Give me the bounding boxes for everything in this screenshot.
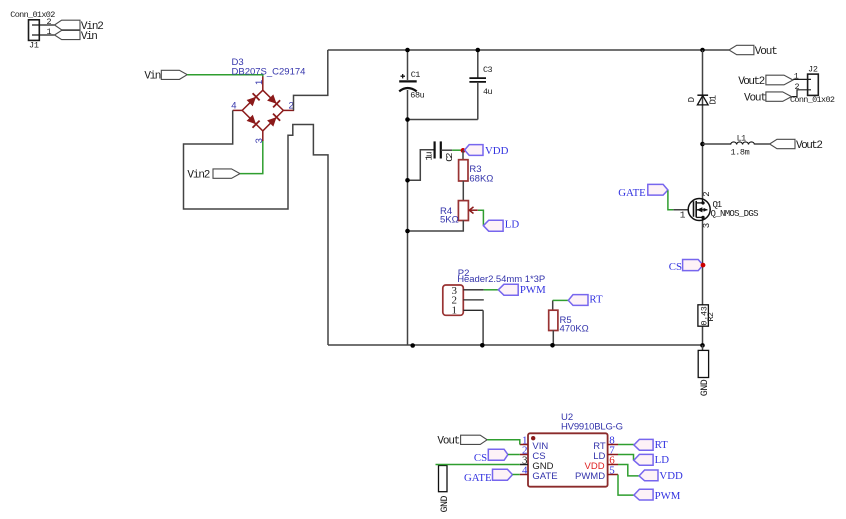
wire U2 pin 7 to LD (green) — [618, 455, 634, 461]
svg-text:2: 2 — [47, 17, 52, 27]
resistor R5 470KOhm — [549, 300, 589, 345]
diode D3-b (top to right) — [267, 94, 277, 103]
power symbol GND (left, at U2 pin 3) — [439, 466, 451, 513]
svg-text:RT: RT — [655, 439, 669, 451]
svg-text:L1: L1 — [737, 134, 747, 144]
hierarchical label Vout (U2 VIN) — [437, 435, 487, 447]
junction dot R4 branch node — [405, 229, 410, 234]
U2 pin 7 stub — [608, 454, 618, 456]
IC U2 HV9910BLG-G — [520, 412, 623, 487]
junction dot C2 branch node — [405, 178, 410, 183]
wire GND to U2 pin 3 (green) — [436, 464, 520, 466]
svg-text:VDD: VDD — [485, 145, 509, 157]
svg-text:J2: J2 — [808, 65, 818, 75]
wire P2 pin 1 down to bottom bus — [482, 310, 484, 345]
svg-text:PWMD: PWMD — [575, 471, 605, 482]
hierarchical label Vin (at J1 pin 1) — [55, 30, 98, 43]
connector J2 (Conn_01x02) — [790, 65, 835, 105]
svg-text:470KΩ: 470KΩ — [560, 323, 589, 334]
svg-text:2: 2 — [795, 82, 800, 92]
svg-text:4u: 4u — [483, 87, 493, 97]
wire gate lead (black) — [673, 209, 693, 211]
svg-text:5: 5 — [609, 465, 615, 477]
U2 pin 2 stub — [520, 454, 528, 456]
capacitor C2 1u — [424, 141, 455, 161]
svg-text:3: 3 — [254, 138, 265, 143]
wire U2 pin 6 to VDD (green) — [618, 465, 639, 476]
power symbol GND (right) — [698, 345, 711, 396]
U2 pin 3 stub — [520, 464, 528, 466]
global label RT (at R5) — [568, 293, 603, 305]
junction dot at L1 branch — [700, 142, 705, 147]
bridge pin 3 stub — [262, 131, 264, 141]
svg-text:4: 4 — [522, 465, 528, 477]
junction dot C1 bottom node — [405, 117, 410, 122]
svg-text:1: 1 — [452, 305, 458, 317]
svg-text:VDD: VDD — [659, 470, 683, 482]
inductor L1 1.8m — [703, 134, 770, 158]
bridge rectifier D3 DB207S_C29174 — [231, 57, 305, 144]
wire from bridge pin 2 to top bus — [294, 50, 328, 110]
svg-text:Vout: Vout — [437, 435, 460, 447]
resistor R3 68KOhm — [459, 150, 494, 200]
bridge pin 4 stub — [233, 109, 243, 111]
wire C2 to VDD node (green) — [452, 149, 462, 151]
svg-text:Vout: Vout — [744, 92, 767, 104]
junction red dot at VDD node — [461, 148, 466, 153]
wire P2 pin 3 to PWM (green) — [484, 289, 499, 291]
header P2 Header2.54mm 1*3P — [443, 268, 545, 317]
svg-text:PWM: PWM — [655, 490, 681, 502]
wire right vertical rail — [702, 50, 704, 345]
connector J1 (Conn_01x02) — [10, 10, 55, 50]
U2 pin 5 stub — [608, 474, 618, 476]
svg-text:Vout: Vout — [755, 46, 778, 58]
svg-text:D1: D1 — [708, 95, 718, 105]
svg-text:LD: LD — [655, 454, 670, 466]
U2 pin 1 stub — [520, 444, 528, 446]
svg-text:C1: C1 — [411, 70, 421, 80]
U2 pin 4 stub — [520, 474, 528, 476]
U2 pin 6 stub — [608, 464, 618, 466]
junction dot C1 top bus — [405, 48, 410, 53]
svg-text:2: 2 — [702, 191, 712, 196]
svg-text:68u: 68u — [410, 90, 424, 100]
svg-text:CS: CS — [474, 452, 487, 464]
U2 pin 8 stub — [608, 444, 618, 446]
svg-text:1: 1 — [680, 209, 686, 220]
global label GATE — [618, 184, 668, 199]
global label CS (right rail) — [669, 260, 703, 274]
bridge pin 1 stub — [262, 77, 264, 91]
svg-text:HV9910BLG-G: HV9910BLG-G — [561, 421, 623, 432]
global label CS (U2 pin 2) — [474, 449, 508, 464]
wire Vout to U2 pin 1 (green) — [487, 440, 520, 445]
svg-text:J1: J1 — [29, 40, 39, 50]
hierarchical label Vout (top right) — [729, 45, 778, 58]
svg-text:GND: GND — [440, 496, 451, 513]
global label PWM (at P2) — [498, 284, 546, 296]
svg-text:1: 1 — [47, 27, 52, 37]
svg-text:Vin: Vin — [144, 70, 161, 82]
svg-text:Vout2: Vout2 — [796, 140, 823, 152]
hierarchical label Vin (left of bridge) — [144, 70, 187, 82]
wire loop from bridge pin 4 to bottom bus — [184, 110, 329, 345]
svg-text:GATE: GATE — [618, 187, 646, 199]
svg-text:68KΩ: 68KΩ — [469, 173, 493, 184]
svg-text:3: 3 — [702, 223, 712, 228]
svg-text:R2: R2 — [706, 312, 716, 322]
hierarchical label Vin2 (at J1 pin 2) — [55, 20, 104, 33]
svg-text:Vout2: Vout2 — [738, 76, 765, 88]
svg-text:DB207S_C29174: DB207S_C29174 — [232, 67, 306, 78]
svg-text:1: 1 — [794, 71, 799, 81]
svg-text:Q_NMOS_DGS: Q_NMOS_DGS — [711, 209, 759, 219]
hierarchical label Vout2 (after L1) — [770, 139, 823, 152]
top bus wire — [328, 49, 729, 51]
global label VDD — [465, 145, 509, 157]
diode D1 — [687, 95, 719, 105]
wire U2 pin 5 to PWM (green) — [618, 475, 634, 496]
global label GATE (U2 pin 4) — [464, 469, 513, 484]
bottom bus wire — [328, 344, 703, 346]
svg-text:C3: C3 — [483, 65, 493, 75]
svg-text:Vin: Vin — [81, 31, 98, 43]
wire C3 bottom to C1 node — [408, 119, 478, 121]
bridge pin 2 stub — [283, 109, 294, 111]
svg-text:GATE: GATE — [532, 471, 557, 482]
wire GATE to U2 pin 4 (green) — [513, 474, 520, 476]
wire R5 top to RT (green) — [553, 299, 569, 301]
junction dot top-right corner — [700, 48, 705, 53]
svg-text:GND: GND — [700, 379, 711, 396]
transistor Q1 Q_NMOS_DGS — [680, 191, 759, 228]
svg-text:LD: LD — [505, 219, 520, 231]
capacitor C3 4u — [469, 50, 492, 120]
global label LD (U2 pin 7) — [634, 454, 669, 466]
svg-text:CS: CS — [669, 261, 682, 273]
capacitor C1 68u — [399, 50, 424, 120]
wire Vin to bridge pin 1 (green) — [187, 75, 263, 77]
svg-text:GATE: GATE — [464, 472, 492, 484]
hierarchical label Vin2 (below bridge) — [187, 169, 240, 182]
svg-text:1u: 1u — [424, 151, 435, 160]
wire CS to U2 pin 2 (green) — [508, 454, 520, 456]
global label RT (U2 pin 8) — [634, 439, 668, 451]
wire GATE to Q1 gate (green) — [668, 191, 673, 210]
resistor R2 0.43 — [698, 305, 716, 326]
svg-text:Vin2: Vin2 — [187, 169, 210, 181]
svg-text:PWM: PWM — [520, 284, 546, 296]
junction red dot at CS — [701, 263, 706, 268]
global label VDD (U2 pin 6) — [639, 470, 683, 482]
svg-text:C2: C2 — [444, 152, 455, 161]
svg-text:4: 4 — [231, 101, 236, 112]
wire main vertical from C1 down to bottom bus — [407, 120, 409, 346]
hierarchical label Vout2 (J2 pin 1) — [738, 75, 793, 88]
wire R4 bottom to main vertical — [408, 221, 464, 232]
diode D3-d (bottom to right) — [267, 117, 277, 127]
svg-text:5KΩ: 5KΩ — [440, 214, 459, 225]
junction dot R5 on bus — [550, 343, 555, 348]
junction dot main vertical on bus — [410, 343, 415, 348]
wire Vin2 to bridge pin 3 (green) — [240, 140, 263, 174]
svg-text:RT: RT — [589, 293, 603, 305]
svg-text:D: D — [687, 97, 697, 102]
junction dot bottom-right corner — [700, 343, 705, 348]
diode D3-a (lower-left to top) — [247, 97, 257, 106]
wire R4 wiper to LD (green) — [478, 210, 483, 225]
wire from node to C2 left plate — [408, 150, 435, 181]
hierarchical label Vout (J2 pin 2) — [744, 92, 792, 105]
global label PWM (U2 pin 5) — [634, 489, 681, 502]
svg-text:1: 1 — [254, 80, 265, 85]
global label LD — [483, 219, 519, 232]
junction dot P2 on bus — [480, 343, 485, 348]
wire U2 pin 8 to RT (green) — [618, 444, 634, 446]
svg-text:1.8m: 1.8m — [731, 148, 750, 158]
bridge diamond — [242, 90, 283, 131]
diode D3-c (left to bottom) — [247, 115, 256, 125]
junction dot C3 top bus — [476, 48, 481, 53]
resistor R4 5KOhm (preset) — [440, 201, 478, 226]
